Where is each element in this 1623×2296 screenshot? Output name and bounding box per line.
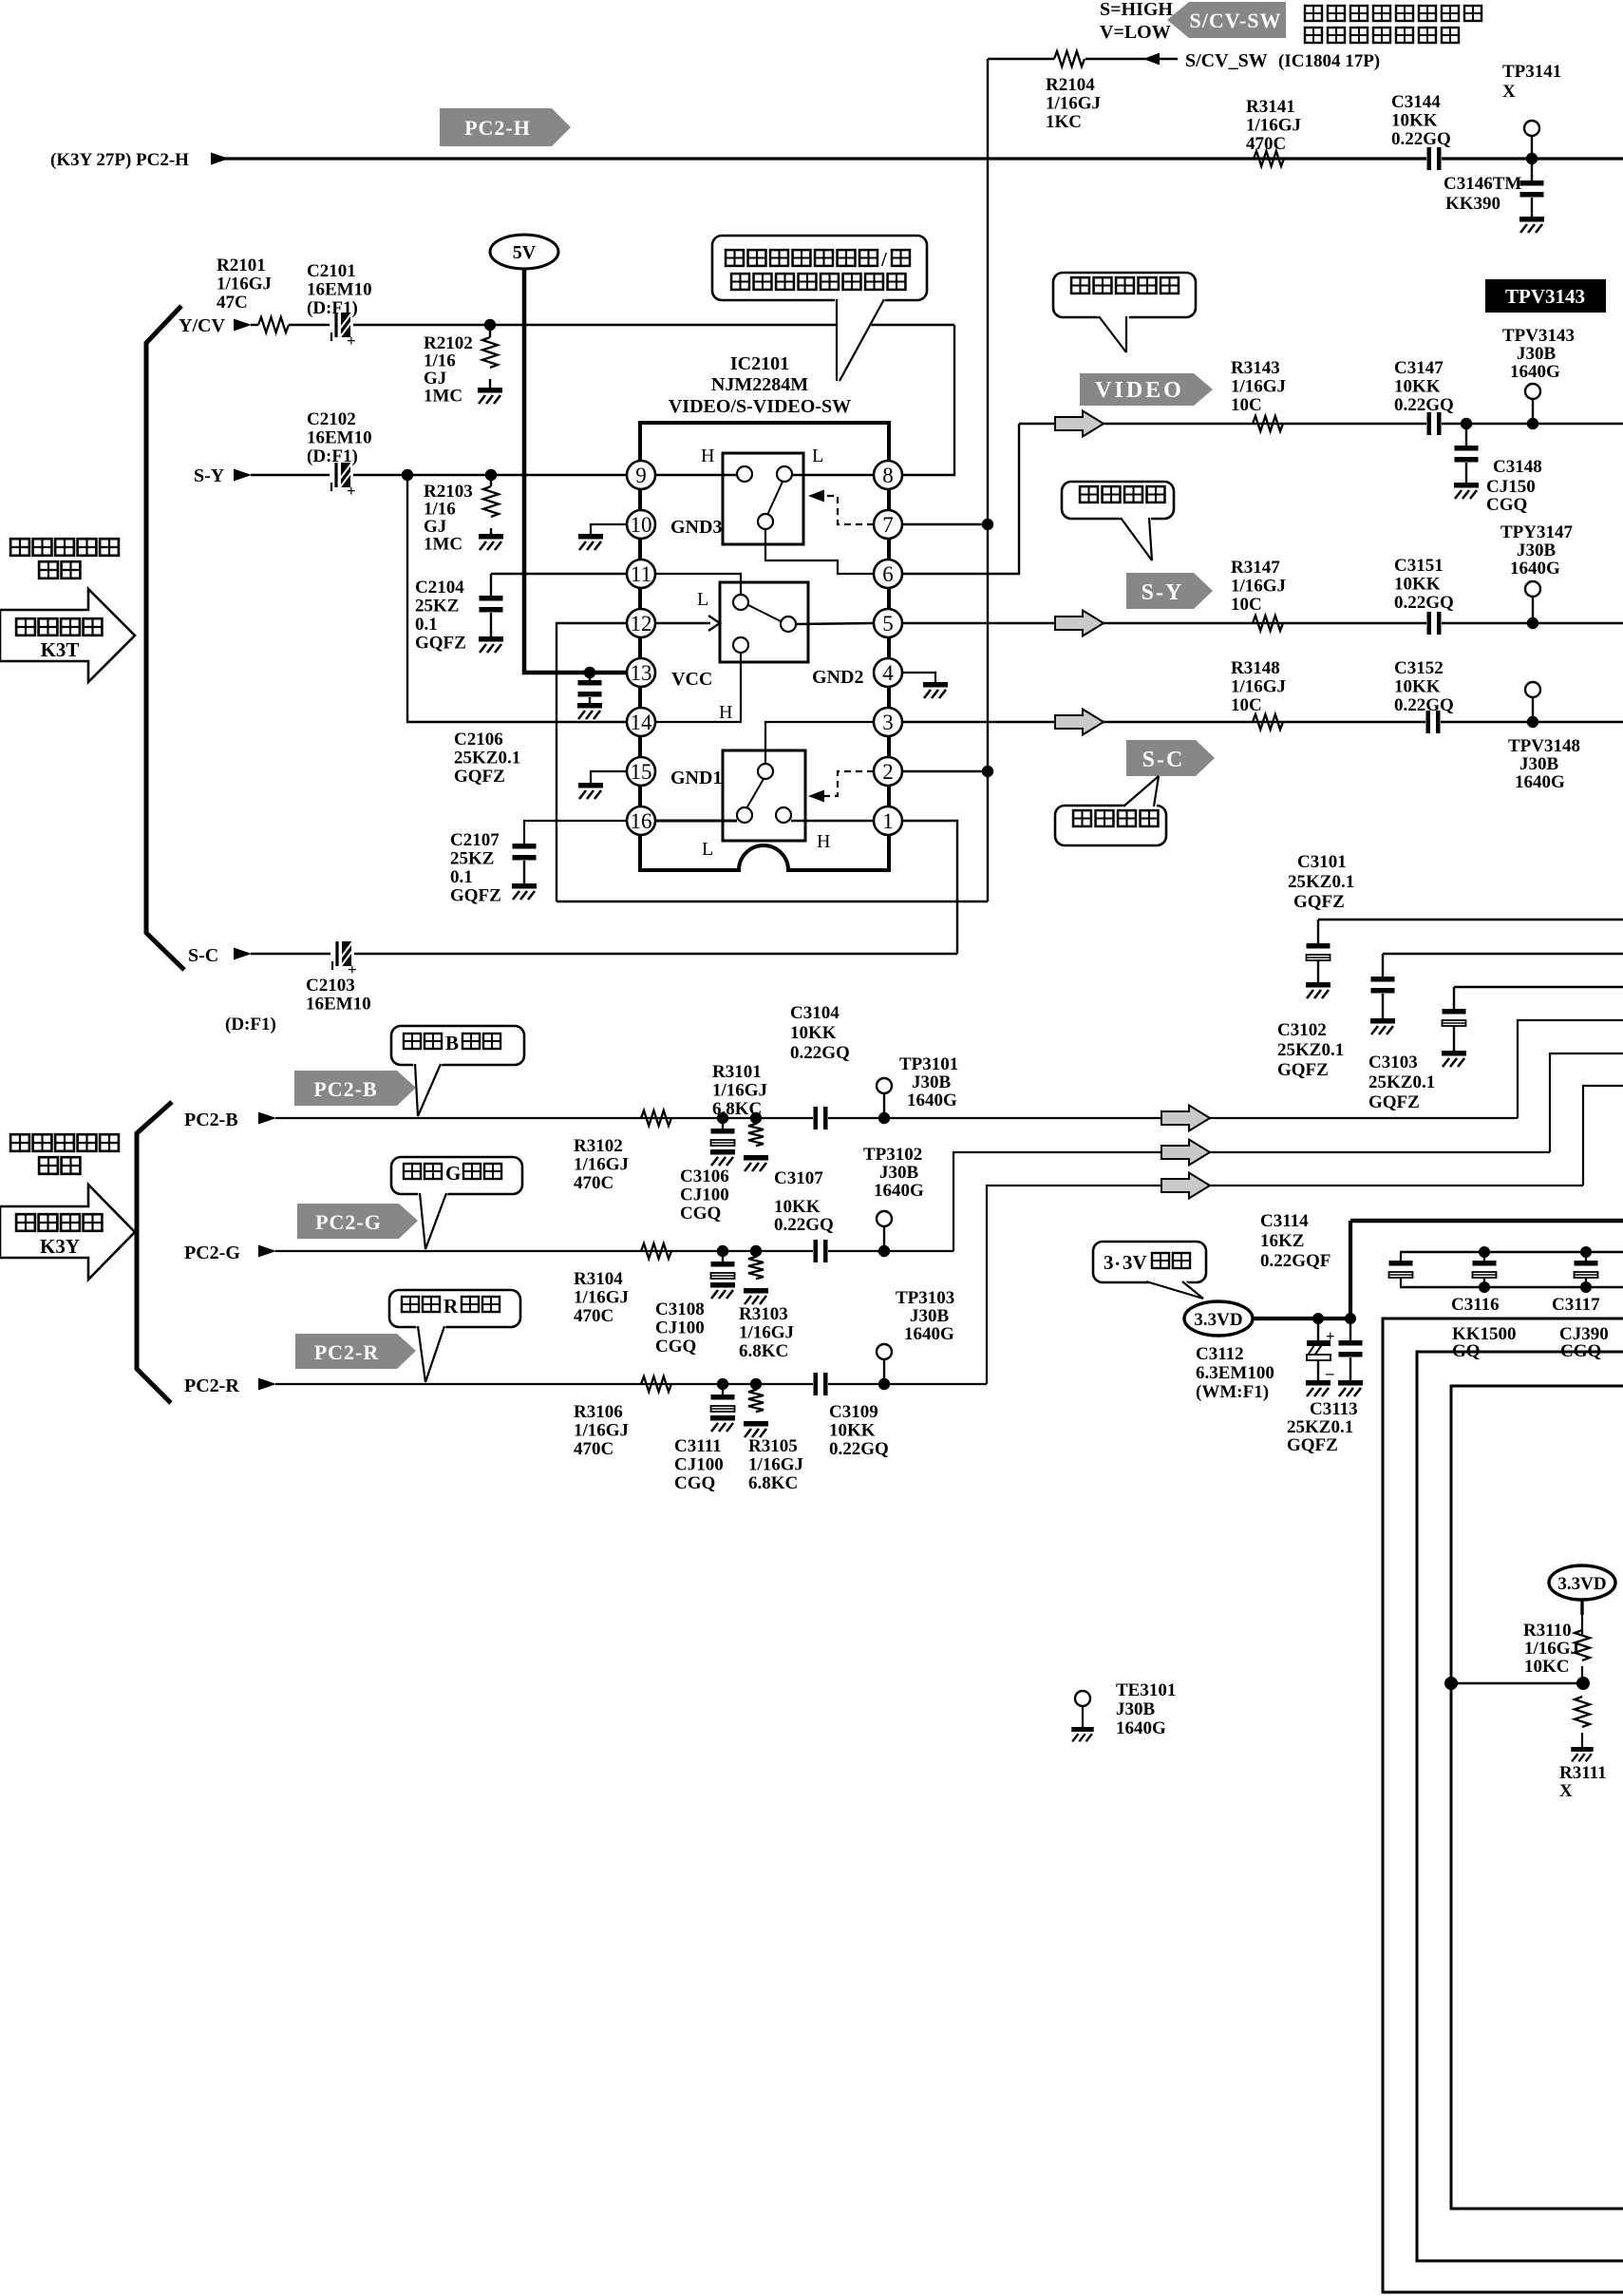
svg-text:R3101: R3101 xyxy=(712,1062,762,1082)
connector K3Y arrow xyxy=(0,1185,135,1280)
wire 3.3V riser xyxy=(1349,1221,1352,1319)
svg-text:GQFZ: GQFZ xyxy=(415,634,466,654)
wire PC2-H xyxy=(211,157,1623,160)
svg-text:CGQ: CGQ xyxy=(674,1473,715,1493)
arrowhead PC2-H input xyxy=(211,153,229,165)
arrowhead S-Y xyxy=(234,469,252,482)
svg-text:0.22GQ: 0.22GQ xyxy=(1394,593,1454,613)
svg-text:Y/CV: Y/CV xyxy=(179,315,225,336)
svg-text:1: 1 xyxy=(882,809,894,833)
callout analog-G xyxy=(391,1157,522,1194)
capacitor C3112 xyxy=(1317,1319,1319,1340)
node R j1 xyxy=(717,1378,728,1390)
svg-text:0.22GQ: 0.22GQ xyxy=(829,1439,889,1459)
wire R up xyxy=(987,1186,1583,1384)
svg-text:3: 3 xyxy=(882,711,894,734)
capacitor C2104 xyxy=(490,574,492,596)
switch SW2 box xyxy=(720,582,808,662)
svg-text:R3102: R3102 xyxy=(574,1136,623,1156)
svg-text:470C: 470C xyxy=(1246,134,1286,154)
capacitor C3111 xyxy=(722,1384,724,1395)
resistor R3105 xyxy=(755,1384,757,1391)
banner S/CV-SW xyxy=(1167,2,1286,38)
svg-text:1/16GJ: 1/16GJ xyxy=(574,1155,629,1175)
svg-text:C3104: C3104 xyxy=(790,1003,840,1023)
wire pin11 xyxy=(491,573,627,575)
svg-text:10C: 10C xyxy=(1231,395,1262,415)
svg-text:CJ150: CJ150 xyxy=(1486,477,1536,497)
svg-text:C3103: C3103 xyxy=(1368,1053,1418,1072)
callout 3.3V-supply xyxy=(1093,1242,1206,1282)
switch SW1 contacts xyxy=(737,466,752,482)
wire pin11 to SW2 xyxy=(655,574,741,595)
wire pin3 to SW3 xyxy=(765,722,874,764)
pin 15 IC2101 xyxy=(627,757,655,786)
ground pin4 xyxy=(902,673,935,682)
wire Y/CV to R2101 xyxy=(251,324,258,326)
resistor R2101 xyxy=(258,317,289,332)
svg-text:PC2-R: PC2-R xyxy=(314,1340,380,1364)
svg-text:IC2101: IC2101 xyxy=(730,353,789,374)
capacitor C2106 xyxy=(589,673,591,680)
svg-text:10KK: 10KK xyxy=(1394,377,1441,397)
svg-text:0.22GQ: 0.22GQ xyxy=(790,1043,850,1063)
svg-text:J30B: J30B xyxy=(1517,541,1557,560)
wire pin7 to control xyxy=(903,523,988,525)
testpoint TE3101 xyxy=(1075,1691,1090,1706)
node 3.3V a xyxy=(1312,1313,1324,1324)
svg-text:25KZ0.1: 25KZ0.1 xyxy=(1287,1417,1353,1437)
arrowhead PC2-G xyxy=(258,1245,276,1258)
resistor R3141 xyxy=(1254,151,1284,166)
svg-text:TPV3143: TPV3143 xyxy=(1505,285,1585,308)
svg-text:C3108: C3108 xyxy=(655,1300,705,1319)
svg-text:0.1: 0.1 xyxy=(450,867,473,887)
svg-text:6.8KC: 6.8KC xyxy=(748,1473,798,1493)
svg-text:6.8KC: 6.8KC xyxy=(739,1341,788,1361)
wire pin9 to SW1 xyxy=(655,474,737,476)
wire PC2-G xyxy=(275,1250,953,1252)
svg-text:47C: 47C xyxy=(217,293,248,313)
svg-text:CJ100: CJ100 xyxy=(674,1455,724,1475)
svg-text:CJ100: CJ100 xyxy=(680,1186,729,1205)
svg-text:(IC1804 17P): (IC1804 17P) xyxy=(1278,51,1380,71)
wire S-C out xyxy=(903,721,1623,723)
svg-text:16EM10: 16EM10 xyxy=(306,995,371,1015)
wire SW3 H to pin1 xyxy=(791,820,874,822)
text K3Y link note xyxy=(10,1134,29,1151)
svg-text:3.3VD: 3.3VD xyxy=(1194,1310,1242,1330)
wire pin6 to VIDEO xyxy=(903,424,1019,574)
svg-text:1640G: 1640G xyxy=(907,1091,957,1110)
svg-text:C3116: C3116 xyxy=(1451,1295,1500,1315)
connector K3T arrow xyxy=(0,589,135,682)
svg-text:H: H xyxy=(719,702,732,723)
svg-text:GQFZ: GQFZ xyxy=(1368,1092,1420,1112)
pin 10 IC2101 xyxy=(627,510,655,539)
resistor R3110 xyxy=(1580,1600,1583,1615)
svg-text:GQFZ: GQFZ xyxy=(1277,1060,1329,1080)
capacitor C3104 xyxy=(813,1107,828,1129)
svg-text:3V: 3V xyxy=(1123,1251,1147,1274)
svg-text:12: 12 xyxy=(631,612,652,636)
capacitor C2101 xyxy=(333,323,352,327)
wire PC2-R xyxy=(275,1383,987,1385)
wire S-C in xyxy=(251,953,330,955)
node G j1 xyxy=(717,1245,728,1257)
svg-text:5: 5 xyxy=(882,612,894,636)
wire pin2 dashed control xyxy=(822,771,874,796)
svg-text:H: H xyxy=(817,831,830,852)
testpoint TP3102 xyxy=(878,1245,890,1257)
svg-text:GND1: GND1 xyxy=(670,768,722,788)
open-arrow R xyxy=(1161,1173,1210,1199)
svg-text:1/16GJ: 1/16GJ xyxy=(739,1323,794,1343)
svg-text:+: + xyxy=(347,332,356,350)
node VIDEO C3148 xyxy=(1461,418,1472,429)
svg-text:GND2: GND2 xyxy=(812,667,863,688)
resistor R3102 xyxy=(641,1110,671,1126)
svg-text:1MC: 1MC xyxy=(424,387,462,407)
svg-text:C2102: C2102 xyxy=(307,409,356,429)
svg-text:1/16GJ: 1/16GJ xyxy=(748,1455,803,1475)
svg-text:0.22GQ: 0.22GQ xyxy=(1394,695,1454,715)
svg-text:VIDEO: VIDEO xyxy=(1095,378,1184,403)
wire control to pin12 feed xyxy=(557,901,988,902)
svg-text:C3111: C3111 xyxy=(674,1436,722,1456)
wire pin16 left xyxy=(524,821,627,844)
svg-text:G: G xyxy=(445,1162,461,1185)
capacitor C3144 xyxy=(1426,147,1442,170)
resistor R3101 xyxy=(755,1118,757,1125)
svg-text:C3113: C3113 xyxy=(1310,1399,1358,1419)
power 3.3VD oval xyxy=(1184,1301,1253,1336)
wire 3.3VD bus xyxy=(1253,1317,1350,1320)
wire S-Y to pin14 xyxy=(407,475,627,722)
wire R3110 to frame xyxy=(1451,1682,1582,1685)
svg-text:15: 15 xyxy=(631,760,652,784)
svg-text:10KK: 10KK xyxy=(1394,575,1441,595)
pin 11 IC2101 xyxy=(627,560,655,588)
svg-text:VCC: VCC xyxy=(671,669,712,690)
pin 5 IC2101 xyxy=(874,609,902,637)
svg-text:11: 11 xyxy=(631,562,651,586)
svg-text:10KK: 10KK xyxy=(829,1421,876,1441)
svg-text:6.8KC: 6.8KC xyxy=(712,1099,762,1119)
open-arrow B xyxy=(1161,1106,1210,1131)
svg-text:1MC: 1MC xyxy=(424,535,462,555)
svg-text:.: . xyxy=(1115,1247,1120,1270)
open-arrow S-C xyxy=(1055,710,1104,735)
svg-text:16EM10: 16EM10 xyxy=(307,280,372,300)
callout chroma-signal xyxy=(1055,806,1166,845)
capacitor C3148 xyxy=(1465,424,1467,446)
svg-text:C3107: C3107 xyxy=(774,1168,823,1188)
svg-text:H: H xyxy=(701,446,714,466)
arrowhead S-C xyxy=(234,948,252,960)
svg-text:S-C: S-C xyxy=(188,945,218,966)
svg-text:TE3101: TE3101 xyxy=(1116,1680,1176,1700)
node R3110 junction xyxy=(1576,1677,1590,1690)
node Y/CV R2102 xyxy=(484,319,496,331)
svg-text:1/16GJ: 1/16GJ xyxy=(1231,377,1286,397)
capacitor C3109 xyxy=(813,1373,828,1395)
svg-text:PC2-B: PC2-B xyxy=(313,1077,377,1101)
wire S-Y out xyxy=(903,622,1623,624)
svg-text:TPY3147: TPY3147 xyxy=(1500,522,1574,542)
svg-text:GND3: GND3 xyxy=(670,517,722,538)
capacitor C3117 xyxy=(1580,1246,1592,1258)
svg-text:10KK: 10KK xyxy=(1391,111,1438,131)
capacitor C3108 xyxy=(722,1251,724,1262)
node S-Y b xyxy=(485,469,497,481)
connector K3Y bracket xyxy=(137,1102,172,1403)
node 3.3V b xyxy=(1345,1313,1356,1324)
wire pin16 to SW3 xyxy=(655,820,737,823)
wire Y/CV main xyxy=(353,324,954,326)
svg-text:1/16GJ: 1/16GJ xyxy=(712,1081,767,1101)
svg-text:25KZ0.1: 25KZ0.1 xyxy=(454,749,520,768)
svg-text:C2104: C2104 xyxy=(415,578,464,598)
text control-signal note line2 xyxy=(1305,28,1322,43)
node R j2 xyxy=(750,1378,762,1390)
banner VIDEO xyxy=(1080,373,1213,406)
svg-text:14: 14 xyxy=(631,711,653,734)
svg-text:K3T: K3T xyxy=(41,638,80,661)
svg-text:1640G: 1640G xyxy=(904,1324,954,1344)
callout full-video-signal xyxy=(1053,273,1196,317)
capacitor C3151 xyxy=(1426,612,1442,635)
node B j1 xyxy=(717,1112,728,1124)
svg-text:R3103: R3103 xyxy=(739,1304,788,1324)
svg-text:CGQ: CGQ xyxy=(680,1204,721,1224)
capacitor C3101 xyxy=(1317,920,1319,943)
svg-text:1/16GJ: 1/16GJ xyxy=(574,1288,629,1308)
wire SW1 common to pin6 xyxy=(765,529,874,574)
resistor R3148 xyxy=(1253,714,1283,730)
capacitor C3106 xyxy=(722,1118,724,1129)
svg-text:J30B: J30B xyxy=(912,1072,952,1092)
svg-text:10KK: 10KK xyxy=(1394,677,1441,697)
node S-Y a xyxy=(402,469,413,481)
svg-text:+: + xyxy=(347,482,356,500)
wire SW1 L to pin8 xyxy=(792,474,875,476)
node frame junction xyxy=(1444,1677,1458,1690)
svg-text:C3109: C3109 xyxy=(829,1402,878,1422)
svg-text:PC2-G: PC2-G xyxy=(184,1243,240,1263)
svg-text:R3147: R3147 xyxy=(1231,558,1280,578)
svg-text:10KK: 10KK xyxy=(790,1023,837,1043)
capacitor C3146TM xyxy=(1531,159,1533,180)
svg-text:PC2-B: PC2-B xyxy=(184,1110,238,1130)
svg-text:(D:F1): (D:F1) xyxy=(307,446,358,466)
svg-text:1640G: 1640G xyxy=(1515,772,1565,792)
resistor R3106 xyxy=(641,1376,671,1392)
svg-text:X: X xyxy=(1502,82,1516,102)
svg-text:5V: 5V xyxy=(513,242,537,263)
capacitor C3113 xyxy=(1349,1319,1351,1340)
testpoint TPV3148 xyxy=(1525,682,1540,697)
callout analog-R xyxy=(389,1290,520,1327)
svg-text:10: 10 xyxy=(631,513,652,537)
svg-text:PC2-H: PC2-H xyxy=(464,116,531,140)
svg-text:PC2-G: PC2-G xyxy=(315,1210,382,1234)
svg-text:R3148: R3148 xyxy=(1231,658,1280,678)
svg-text:10KK: 10KK xyxy=(774,1197,821,1217)
svg-text:NJM2284M: NJM2284M xyxy=(711,374,808,395)
svg-text:C2107: C2107 xyxy=(450,830,500,850)
capacitor C3152 xyxy=(1425,711,1441,733)
svg-text:C3114: C3114 xyxy=(1260,1211,1309,1231)
svg-text:16EM10: 16EM10 xyxy=(307,428,372,448)
svg-text:1KC: 1KC xyxy=(1046,112,1082,132)
svg-text:25KZ0.1: 25KZ0.1 xyxy=(1288,872,1354,892)
svg-text:J30B: J30B xyxy=(1517,344,1557,364)
svg-text:0.22GQ: 0.22GQ xyxy=(1394,395,1454,415)
switch SW3 box xyxy=(723,750,805,841)
open-arrow VIDEO xyxy=(1055,411,1104,437)
svg-text:J30B: J30B xyxy=(1519,754,1559,774)
testpoint TP3101 xyxy=(878,1112,890,1124)
wire S-Y in xyxy=(251,474,330,476)
svg-text:25KZ0.1: 25KZ0.1 xyxy=(1368,1072,1435,1092)
svg-text:R3105: R3105 xyxy=(748,1436,798,1456)
capacitor C2102 xyxy=(333,473,352,477)
banner PC2-R xyxy=(295,1334,416,1369)
frame block C xyxy=(1451,1386,1623,2209)
svg-text:3.3VD: 3.3VD xyxy=(1557,1574,1606,1594)
svg-text:25KZ: 25KZ xyxy=(450,849,494,869)
resistor R2102 xyxy=(489,325,491,337)
connector K3T bracket xyxy=(146,306,184,970)
svg-text:R2104: R2104 xyxy=(1046,75,1095,95)
wire S-Y main xyxy=(353,474,627,476)
svg-text:CGQ: CGQ xyxy=(655,1337,696,1357)
svg-text:3: 3 xyxy=(1104,1251,1114,1274)
svg-text:1640G: 1640G xyxy=(1116,1718,1166,1738)
svg-text:V=LOW: V=LOW xyxy=(1100,22,1171,43)
resistor R2103 xyxy=(490,475,492,486)
svg-text:470C: 470C xyxy=(574,1306,613,1326)
wire pin12 control xyxy=(557,623,627,901)
svg-text:C2101: C2101 xyxy=(307,261,356,281)
svg-text:R3141: R3141 xyxy=(1246,97,1295,117)
banner S-Y xyxy=(1126,573,1213,609)
svg-text:C3147: C3147 xyxy=(1394,358,1444,378)
svg-text:C3117: C3117 xyxy=(1552,1295,1600,1315)
callout video-switch note xyxy=(712,236,927,300)
svg-text:1/16GJ: 1/16GJ xyxy=(1046,94,1101,114)
resistor R2104 xyxy=(1054,51,1085,66)
wire PC2-B xyxy=(275,1117,1518,1119)
ground pin15 xyxy=(591,771,627,783)
ground pin10 xyxy=(591,524,627,534)
svg-text:16: 16 xyxy=(631,809,652,833)
svg-text:1640G: 1640G xyxy=(1510,559,1560,579)
capacitor C3102 xyxy=(1382,954,1384,977)
svg-text:C3148: C3148 xyxy=(1493,457,1542,477)
svg-text:C2103: C2103 xyxy=(306,976,355,996)
svg-text:1640G: 1640G xyxy=(1510,362,1560,382)
svg-text:6.3EM100: 6.3EM100 xyxy=(1196,1363,1274,1383)
svg-text:L: L xyxy=(812,446,823,466)
svg-text:TPV3148: TPV3148 xyxy=(1508,736,1580,756)
capacitor C3116 xyxy=(1479,1246,1490,1258)
svg-text:L: L xyxy=(702,839,713,860)
svg-text:9: 9 xyxy=(635,464,647,487)
wire C3101 net xyxy=(1318,919,1623,920)
wire G up xyxy=(953,1152,1550,1251)
svg-text:PC2-R: PC2-R xyxy=(184,1376,239,1396)
svg-text:C3106: C3106 xyxy=(680,1167,729,1186)
pin 6 IC2101 xyxy=(874,560,902,588)
svg-text:PC2-H: PC2-H xyxy=(136,150,189,170)
svg-text:S-C: S-C xyxy=(1142,748,1185,772)
resistor R3104 xyxy=(641,1243,671,1259)
svg-text:J30B: J30B xyxy=(1116,1699,1156,1719)
pin 3 IC2101 xyxy=(874,708,902,736)
svg-text:C3144: C3144 xyxy=(1391,92,1441,112)
text K3T link note xyxy=(10,539,29,556)
svg-text:(D:F1): (D:F1) xyxy=(225,1015,276,1034)
resistor R3143 xyxy=(1253,416,1283,431)
svg-text:R3110: R3110 xyxy=(1523,1621,1572,1641)
capacitor rail end xyxy=(1400,1252,1402,1261)
svg-text:(K3Y 27P): (K3Y 27P) xyxy=(50,150,131,170)
svg-text:1/16GJ: 1/16GJ xyxy=(217,275,272,294)
svg-text:1/16GJ: 1/16GJ xyxy=(1524,1639,1579,1659)
svg-text:(WM:F1): (WM:F1) xyxy=(1196,1382,1269,1402)
svg-text:L: L xyxy=(697,589,708,610)
svg-text:25KZ: 25KZ xyxy=(415,597,459,617)
svg-text:0.22GQF: 0.22GQF xyxy=(1260,1251,1330,1271)
capacitor C2103 xyxy=(334,952,353,956)
svg-text:VIDEO/S-VIDEO-SW: VIDEO/S-VIDEO-SW xyxy=(669,396,851,417)
banner S-C xyxy=(1126,740,1215,776)
ic IC2101 body xyxy=(640,423,889,870)
wire VIDEO xyxy=(1019,423,1623,425)
svg-text:R3143: R3143 xyxy=(1231,358,1280,378)
frame block A xyxy=(1383,1319,1623,2292)
svg-text:1640G: 1640G xyxy=(874,1181,924,1201)
svg-text:X: X xyxy=(1559,1781,1573,1801)
wire R2104 left to control line xyxy=(988,58,1054,60)
pin 13 IC2101 xyxy=(627,658,655,687)
svg-text:TP3103: TP3103 xyxy=(896,1288,954,1308)
callout analog-B xyxy=(391,1026,524,1065)
power 3.3VD oval2 xyxy=(1549,1565,1615,1600)
resistor R3111 xyxy=(1575,1697,1590,1727)
switch SW2 contacts xyxy=(733,595,748,610)
pin 14 IC2101 xyxy=(627,708,655,736)
wire C3103 net xyxy=(1454,986,1623,988)
svg-text:GQFZ: GQFZ xyxy=(1293,892,1345,912)
svg-text:10KC: 10KC xyxy=(1524,1657,1570,1677)
callout luma-signal xyxy=(1062,482,1174,519)
wire SW2 out to pin5 xyxy=(796,623,875,624)
wire SW2 H to pin14 xyxy=(655,653,741,722)
wire 3.3V rail xyxy=(1350,1219,1623,1224)
banner TPV3143 black box xyxy=(1485,279,1606,313)
pin 9 IC2101 xyxy=(627,461,655,489)
svg-text:S/CV-SW: S/CV-SW xyxy=(1189,9,1281,32)
svg-text:CGQ: CGQ xyxy=(1486,495,1527,515)
svg-text:C3151: C3151 xyxy=(1394,556,1444,576)
resistor R3103 xyxy=(755,1251,757,1258)
svg-text:KK390: KK390 xyxy=(1445,194,1500,214)
svg-text:0.1: 0.1 xyxy=(415,615,438,635)
svg-text:6: 6 xyxy=(882,562,894,586)
